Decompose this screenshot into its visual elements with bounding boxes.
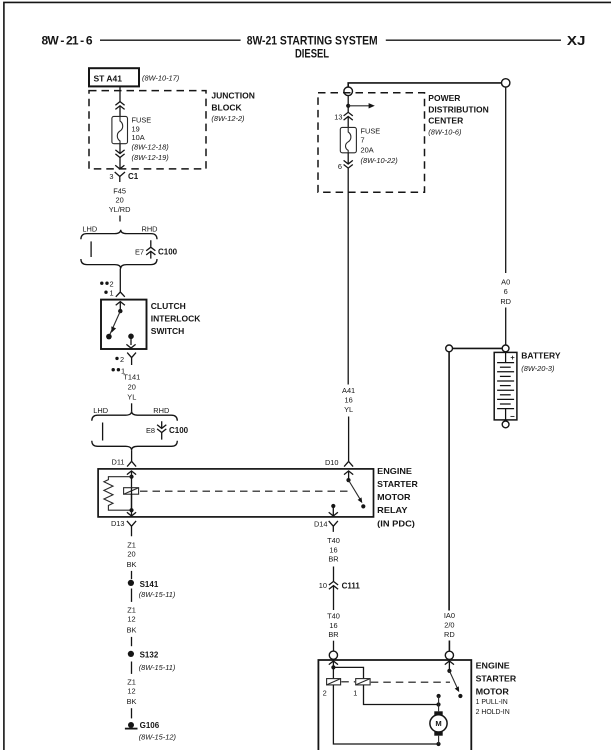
wire A0 to battery [505,308,507,346]
svg-text:BLOCK: BLOCK [211,102,242,112]
wire to C100 E8 brace [131,403,133,411]
fuse 19 value labels [132,115,170,162]
wire label IA0 2/0 RD [444,611,455,639]
node circle starter feed [446,345,453,352]
wire LHD branch E8 [102,423,104,441]
svg-text:BR: BR [328,555,338,564]
relay label [377,466,418,528]
starter left pin arrow [329,661,338,679]
solenoid stationary contact dot [458,694,462,698]
power distribution center dashed box [318,93,425,193]
brace top at C100 E8 [92,411,178,421]
relay D14 pin arrow [329,506,338,516]
svg-text:ENGINE: ENGINE [476,660,510,670]
splice S132 [128,651,159,660]
switch bottom fork [127,353,136,365]
svg-text:JUNCTION: JUNCTION [211,91,254,101]
battery positive terminal circle [502,345,509,352]
svg-text:C100: C100 [169,426,189,435]
svg-text:10: 10 [319,581,327,590]
svg-text:Z1: Z1 [127,677,136,686]
wire battery feed down [505,87,507,273]
junction dot motor top branch [436,702,440,706]
switch pin dot 2 (bottom) [115,355,124,364]
svg-text:2: 2 [323,689,327,698]
solenoid switch common dot [447,669,451,673]
relay D14 contact dot [331,504,335,508]
svg-text:E7: E7 [135,248,144,257]
svg-text:MOTOR: MOTOR [476,687,509,697]
wire to pull-in coil [333,667,363,678]
wire fuse 7 to A41 label [347,153,349,385]
engine starter motor box [318,660,471,750]
svg-text:(8W-12-2): (8W-12-2) [211,114,245,123]
svg-text:LHD: LHD [82,224,97,233]
svg-text:3: 3 [109,172,113,181]
wire to C100 brace [119,216,121,222]
relay coil bottom junction dot [129,508,133,512]
fuse 7 value labels [361,126,399,165]
svg-text:D11: D11 [111,458,124,467]
switch contact dot lower-left [106,334,112,340]
wire IA0 to starter [448,641,450,652]
brace top at C100 E7 [81,230,157,240]
svg-text:13: 13 [334,112,342,121]
fuse 7 [340,127,356,152]
hold-in coil 2 [323,679,341,698]
connector D14 fork [329,521,338,532]
solenoid blade arrowhead [455,686,460,692]
brace bottom at C100 E7 [81,259,157,269]
power distribution center label [428,93,488,137]
svg-text:12: 12 [127,615,135,624]
clutch interlock switch label [151,301,201,336]
clutch interlock switch box [101,300,147,349]
svg-text:MOTOR: MOTOR [377,492,410,502]
svg-text:STARTER: STARTER [476,673,517,683]
svg-text:(8W-15-11): (8W-15-11) [139,663,176,672]
svg-text:INTERLOCK: INTERLOCK [151,314,201,324]
connector C1 fork [115,172,125,182]
svg-text:RHD: RHD [142,224,158,233]
switch pin dots 1 (bottom) [112,366,126,375]
connector D10 fork [344,461,353,466]
switch pin dot 1 (top) [104,289,113,298]
svg-text:D14: D14 [314,520,328,529]
wire Z1 to G106 [131,708,133,718]
wire motor to bottom junction [438,736,440,744]
svg-text:CLUTCH: CLUTCH [151,301,186,311]
junction dot motor bottom [436,742,440,746]
switch blade [109,311,120,337]
battery label [521,350,561,373]
switch output arrow [126,336,135,348]
svg-text:C100: C100 [158,248,178,257]
starter terminal circle right [445,651,453,659]
svg-text:F45: F45 [113,186,126,195]
wire ST A41 to fuse 19 [119,86,121,116]
relay coil [124,488,139,495]
wire fuse 19 to C1 [119,144,121,169]
svg-text:(8W-10-6): (8W-10-6) [428,128,462,137]
svg-text:Z1: Z1 [127,540,136,549]
wire A41 to relay D10 [348,417,350,462]
svg-text:YL/RD: YL/RD [109,205,131,214]
svg-text:20: 20 [115,196,123,205]
motor M1 [430,715,447,732]
relay D11 pin arrow [127,471,136,488]
svg-text:(IN PDC): (IN PDC) [377,518,415,528]
connector C1 pin arrow [115,165,124,169]
wire label A41 16 YL [342,386,355,414]
node circle at PDC top [344,87,353,96]
wire starter feed down [448,352,450,611]
svg-text:YL: YL [344,405,353,414]
svg-text:RD: RD [444,630,455,639]
wire coil to bottom dot [131,488,133,511]
switch top fork [116,292,125,297]
wire brace to relay D11 [131,450,133,461]
wire C111 to T40 label [333,592,335,610]
relay switch common dot [346,478,350,482]
svg-text:+: + [510,353,515,362]
svg-text:1 PULL-IN: 1 PULL-IN [476,699,508,706]
wire label T40 16 BR upper [327,536,340,564]
solenoid switch blade [449,671,458,689]
svg-text:RHD: RHD [153,406,169,415]
junction block label [211,91,254,123]
svg-text:(8W-15-11): (8W-15-11) [139,590,176,599]
svg-text:16: 16 [329,621,337,630]
relay D10 pin arrow [344,471,353,480]
wire PDC feed horizontal [348,83,501,87]
brace bottom at C100 E8 [92,441,178,451]
feed arrow to other circuits [348,103,375,108]
fuse block ST A41 [89,68,139,86]
wire S132 to Z1 label [131,662,133,674]
svg-text:20: 20 [128,383,136,392]
splice S141 [128,580,159,589]
wire Z1 to S132 [131,637,133,646]
wire label F45 20 YL/RD [109,186,131,214]
starter linkage dashed line [371,681,450,683]
wire contact to motor [438,696,440,711]
wire T40 to starter [333,641,335,652]
svg-text:(8W-12-18): (8W-12-18) [132,142,170,151]
svg-text:XJ: XJ [567,34,586,48]
svg-text:20: 20 [127,550,135,559]
svg-text:S132: S132 [140,651,159,660]
connector C100 E8 chevrons [157,421,166,439]
svg-text:FUSE: FUSE [361,126,381,135]
switch output contact dot [128,334,134,340]
svg-text:BR: BR [328,630,338,639]
svg-text:IA0: IA0 [444,611,455,620]
connector C100 E7 chevrons [146,240,155,258]
motor brush bottom [434,732,442,736]
wire label Z1 12 BK lower [127,677,137,706]
svg-text:T40: T40 [327,611,340,620]
switch top contact arrow [116,302,125,312]
svg-text:RELAY: RELAY [377,505,408,515]
svg-text:BK: BK [127,697,137,706]
svg-text:G106: G106 [140,721,160,730]
switch pin dots 2 (top) [100,280,114,289]
wire battery to starter feed [453,347,503,349]
connector chevrons junction block top [115,102,124,110]
svg-text:T40: T40 [327,536,340,545]
relay stationary contact dot [361,504,365,508]
svg-text:C1: C1 [128,172,139,181]
svg-text:RD: RD [500,297,511,306]
relay resistor branch [104,477,132,511]
junction dot PDC feed [346,104,350,108]
svg-text:D13: D13 [111,519,125,528]
wire hold-in coil to motor bottom [333,685,438,744]
wire PDC internal top [347,96,349,128]
svg-text:SWITCH: SWITCH [151,326,185,336]
svg-text:STARTER: STARTER [377,479,418,489]
relay D13 pin arrow [127,510,136,516]
wire label Z1 12 BK [127,605,137,634]
svg-text:T141: T141 [123,373,140,382]
node circle at battery feed corner [502,79,510,87]
svg-text:LHD: LHD [93,406,108,415]
pull-in coil 1 [353,679,370,698]
wire label T40 16 BR lower [327,611,340,639]
wire brace to clutch switch [119,269,121,293]
starter coil junction dot [331,665,335,669]
wire label Z1 20 BK [127,540,137,569]
svg-text:A0: A0 [501,277,510,286]
svg-text:FUSE: FUSE [132,115,152,124]
connector D13 fork [127,521,136,536]
svg-text:D10: D10 [325,458,339,467]
svg-text:E8: E8 [146,426,155,435]
svg-text:1: 1 [110,289,114,298]
svg-text:BK: BK [127,626,137,635]
engine starter motor relay box [98,469,373,517]
svg-text:ST A41: ST A41 [94,73,123,83]
svg-text:2 HOLD-IN: 2 HOLD-IN [476,709,510,716]
svg-text:BK: BK [127,560,137,569]
relay blade arrowhead [358,497,363,503]
svg-text:1: 1 [353,689,357,698]
connector D11 fork [127,461,136,466]
wire LHD branch [90,241,92,257]
svg-text:16: 16 [344,396,352,405]
connector chevrons pin 13 [344,112,353,120]
svg-text:2: 2 [120,355,124,364]
wire T40 to C111 [333,567,335,580]
svg-text:S141: S141 [140,580,159,589]
svg-text:(8W-20-3): (8W-20-3) [521,364,555,373]
svg-text:DISTRIBUTION: DISTRIBUTION [428,104,488,114]
svg-text:6: 6 [504,287,508,296]
svg-text:(8W-10-22): (8W-10-22) [361,156,399,165]
starter label [476,660,517,716]
svg-text:6: 6 [338,162,342,171]
header rule left [100,39,241,41]
connector chevrons junction block bottom [115,150,124,158]
battery negative terminal circle [502,421,509,428]
svg-text:A41: A41 [342,386,355,395]
connector chevrons pin 6 [344,160,353,168]
battery B1 [494,352,517,421]
svg-text:12: 12 [127,687,135,696]
svg-text:(8W-10-17): (8W-10-17) [142,74,180,83]
svg-text:DIESEL: DIESEL [295,46,329,60]
svg-text:CENTER: CENTER [428,116,463,126]
connector C111 chevrons [329,580,338,593]
wire label T141 20 YL [123,373,140,402]
starter terminal circle left [329,651,337,659]
relay coil top junction dot [129,475,133,479]
junction block dashed box [89,91,206,169]
switch blade arrowhead [111,326,116,332]
motor brush top [434,711,442,715]
svg-text:7: 7 [361,135,365,144]
relay linkage dashed line [140,490,351,492]
motor contact dot [437,694,441,698]
ground G106 [125,721,160,730]
svg-text:20A: 20A [361,146,374,155]
svg-text:2/0: 2/0 [444,621,454,630]
svg-text:2: 2 [110,280,114,289]
fuse 19 [112,116,128,143]
header rule right [386,39,561,41]
svg-text:Z1: Z1 [127,605,136,614]
svg-text:BATTERY: BATTERY [521,350,561,360]
svg-text:(8W-12-19): (8W-12-19) [132,153,170,162]
svg-text:C111: C111 [342,582,361,591]
svg-text:M: M [435,719,441,728]
svg-text:YL: YL [127,392,136,401]
starter linkage dash between coils [341,681,355,683]
wire label A0 6 RD [500,277,511,305]
svg-text:10A: 10A [132,133,145,142]
svg-text:(8W-15-12): (8W-15-12) [139,733,177,742]
svg-text:POWER: POWER [428,93,460,103]
starter right pin arrow [445,661,454,671]
wire S141 to Z1 label [131,589,133,602]
svg-text:−: − [510,412,515,421]
svg-text:8W - 21 - 6: 8W - 21 - 6 [42,34,93,48]
switch contact dot top [118,309,122,313]
relay switch blade [349,480,362,501]
svg-text:16: 16 [329,545,337,554]
wire pull-in coil to motor top [364,685,439,705]
svg-text:ENGINE: ENGINE [377,466,412,476]
wire Z1 to S141 [131,571,133,579]
